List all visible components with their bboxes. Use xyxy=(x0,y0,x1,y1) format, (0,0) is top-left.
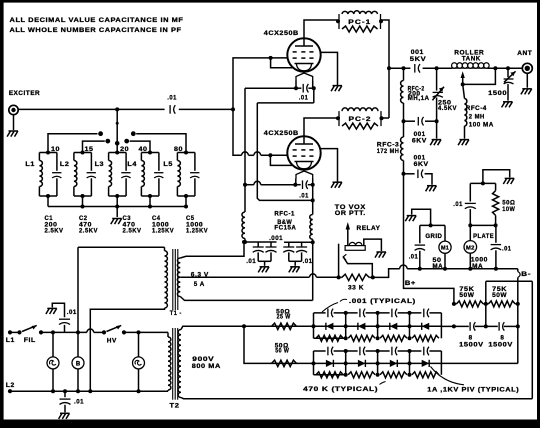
svg-text:RFC-1: RFC-1 xyxy=(274,210,295,217)
svg-text:.01: .01 xyxy=(303,258,313,265)
svg-text:4CX250B: 4CX250B xyxy=(264,130,299,137)
svg-text:2.5KV: 2.5KV xyxy=(79,228,98,235)
svg-text:B+: B+ xyxy=(405,280,416,287)
svg-text:1500V: 1500V xyxy=(459,342,484,349)
svg-text:15: 15 xyxy=(85,146,94,153)
svg-text:50W: 50W xyxy=(492,292,507,299)
svg-text:MA: MA xyxy=(472,263,483,270)
svg-text:1A ,1KV PIV (TYPICAL): 1A ,1KV PIV (TYPICAL) xyxy=(427,386,519,393)
svg-text:PC-2: PC-2 xyxy=(349,116,372,123)
svg-text:FIL: FIL xyxy=(24,337,36,344)
svg-text:M1: M1 xyxy=(441,246,449,252)
svg-text:10: 10 xyxy=(51,146,60,153)
svg-text:.01: .01 xyxy=(502,245,512,252)
svg-text:20: 20 xyxy=(120,146,129,153)
svg-text:80: 80 xyxy=(174,146,183,153)
svg-text:L4: L4 xyxy=(127,161,136,168)
svg-text:L1: L1 xyxy=(25,161,35,168)
svg-text:50W: 50W xyxy=(459,292,474,299)
svg-text:.01: .01 xyxy=(299,192,309,199)
svg-text:2.5KV: 2.5KV xyxy=(123,228,142,235)
svg-text:5 A: 5 A xyxy=(194,281,205,288)
svg-text:.001 (TYPICAL): .001 (TYPICAL) xyxy=(349,298,416,305)
svg-text:100 MA: 100 MA xyxy=(469,121,494,128)
svg-text:L3: L3 xyxy=(95,161,105,168)
svg-text:6KV: 6KV xyxy=(412,137,427,144)
svg-text:.01: .01 xyxy=(453,201,463,208)
svg-text:.01: .01 xyxy=(74,399,84,406)
svg-text:HV: HV xyxy=(107,338,117,345)
svg-text:1500V: 1500V xyxy=(488,342,513,349)
svg-text:GRID: GRID xyxy=(425,233,442,240)
svg-text:L5: L5 xyxy=(163,161,173,168)
svg-text:MA: MA xyxy=(433,263,444,270)
svg-text:.01: .01 xyxy=(246,258,256,265)
svg-text:40: 40 xyxy=(139,146,148,153)
svg-text:172 MH: 172 MH xyxy=(377,148,400,155)
svg-text:10W: 10W xyxy=(502,206,515,213)
svg-text:470 K (TYPICAL): 470 K (TYPICAL) xyxy=(303,386,378,393)
svg-text:.01: .01 xyxy=(409,253,419,260)
svg-text:ALL WHOLE NUMBER CAPACITANCE I: ALL WHOLE NUMBER CAPACITANCE IN PF xyxy=(10,27,182,34)
svg-text:RELAY: RELAY xyxy=(357,225,381,232)
svg-text:PLATE: PLATE xyxy=(473,233,494,240)
svg-text:ANT: ANT xyxy=(517,50,532,57)
svg-text:1.25KV: 1.25KV xyxy=(186,228,208,235)
svg-text:6KV: 6KV xyxy=(414,161,429,168)
svg-text:5KV: 5KV xyxy=(410,56,427,63)
svg-text:25 W: 25 W xyxy=(277,314,291,320)
svg-text:2 MH: 2 MH xyxy=(469,114,485,121)
svg-text:1500: 1500 xyxy=(488,90,507,97)
svg-text:PC-1: PC-1 xyxy=(348,19,371,26)
svg-text:4CX250B: 4CX250B xyxy=(264,30,299,37)
svg-text:FC15A: FC15A xyxy=(274,225,296,232)
svg-text:ALL DECIMAL VALUE CAPACITANCE: ALL DECIMAL VALUE CAPACITANCE IN MF xyxy=(10,17,184,24)
svg-text:900V: 900V xyxy=(192,356,214,363)
svg-text:.01: .01 xyxy=(299,95,309,102)
svg-text:MH,1A: MH,1A xyxy=(408,95,430,102)
svg-text:RFC-4: RFC-4 xyxy=(466,105,487,112)
svg-text:4.5KV: 4.5KV xyxy=(438,105,457,112)
svg-text:T1 -: T1 - xyxy=(170,310,182,317)
svg-text:50 W: 50 W xyxy=(275,349,289,355)
svg-text:1.25KV: 1.25KV xyxy=(152,228,174,235)
svg-text:800 MA: 800 MA xyxy=(192,363,221,370)
svg-text:.01: .01 xyxy=(167,95,177,102)
svg-text:TANK: TANK xyxy=(462,56,481,63)
svg-text:M2: M2 xyxy=(466,245,475,251)
svg-text:6.3 V: 6.3 V xyxy=(191,272,209,279)
svg-text:.01: .01 xyxy=(67,309,77,316)
svg-text:L2: L2 xyxy=(60,161,70,168)
svg-text:2.5KV: 2.5KV xyxy=(45,228,64,235)
svg-text:L1: L1 xyxy=(6,337,15,344)
svg-text:L2: L2 xyxy=(6,382,15,389)
svg-text:EXCITER: EXCITER xyxy=(9,90,41,97)
svg-text:OR PTT.: OR PTT. xyxy=(335,210,366,217)
svg-text:.001: .001 xyxy=(269,235,283,242)
svg-text:33 K: 33 K xyxy=(348,284,364,291)
svg-text:T2: T2 xyxy=(170,403,180,410)
svg-text:B-: B- xyxy=(521,271,531,278)
svg-text:B: B xyxy=(76,361,81,367)
